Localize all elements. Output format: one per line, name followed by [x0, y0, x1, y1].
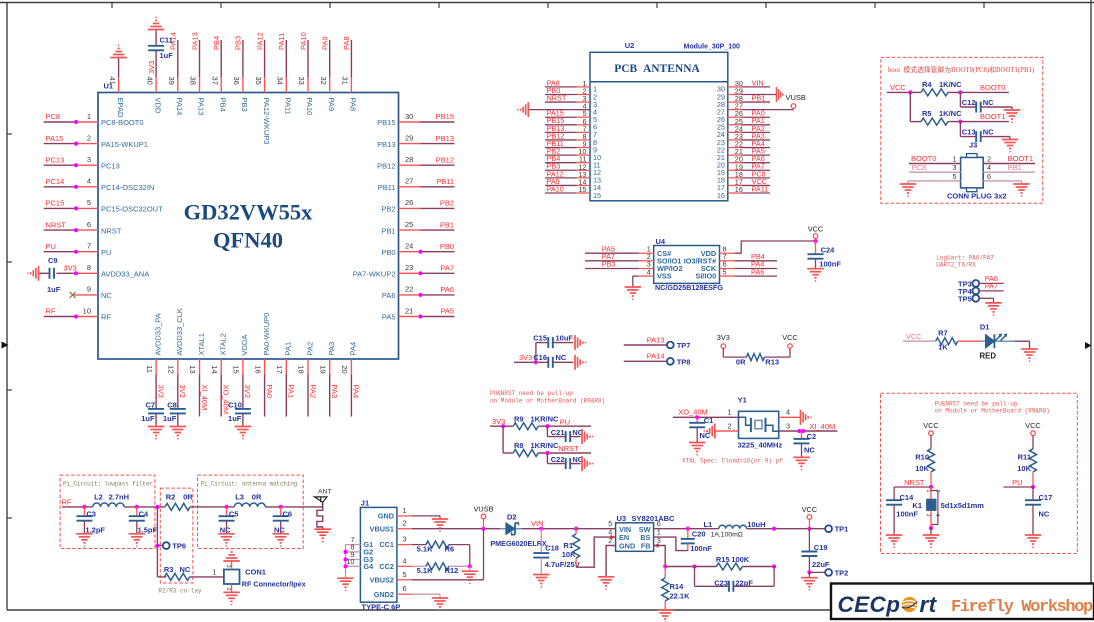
- sheet frame right border: [1085, 0, 1092, 583]
- svg-text:3: 3: [953, 163, 957, 172]
- ground below U4 VSS: [625, 287, 642, 300]
- wire net 3V3 from U1 pin 12: [178, 375, 187, 409]
- wire net PA2 from U1 pin 18: [308, 375, 317, 417]
- svg-text:XI_40M: XI_40M: [200, 385, 209, 411]
- wire net PA11 from U2 pin 16: [742, 184, 771, 193]
- ground below J3 pin 6: [1013, 184, 1030, 197]
- wire net PA6 from U1 pin 22: [418, 285, 454, 297]
- ground above CON1 pin 3: [223, 548, 240, 561]
- U2 pin 18: [717, 170, 743, 185]
- svg-text:L2: L2: [94, 493, 103, 502]
- svg-text:TP1: TP1: [835, 525, 849, 534]
- svg-text:PA7: PA7: [985, 282, 998, 291]
- svg-text:4: 4: [786, 408, 790, 417]
- capacitor C5 NC: [219, 507, 239, 535]
- svg-text:C18: C18: [545, 544, 559, 553]
- wire net RF to U1 pin 10: [44, 307, 78, 319]
- U2 pin 8: [577, 132, 598, 147]
- antenna matching meander to ground: [317, 507, 323, 529]
- wire R1 to EN pin: [576, 537, 616, 567]
- U1 pin 36 PB3: [232, 77, 249, 112]
- svg-text:4: 4: [987, 163, 991, 172]
- svg-text:PB12: PB12: [377, 161, 395, 170]
- svg-text:NC: NC: [101, 291, 112, 300]
- U2 pin 14: [577, 177, 602, 192]
- U1 pin 33 PA10: [297, 77, 314, 116]
- svg-text:1: 1: [925, 490, 931, 493]
- wire U4 VSS to ground: [633, 275, 639, 277]
- U1 pin 5 PC15-OSC32OUT: [76, 198, 163, 213]
- svg-text:PA1: PA1: [287, 385, 296, 399]
- svg-text:RF: RF: [101, 313, 111, 322]
- U2 pin 1: [577, 79, 598, 94]
- svg-text:ANT: ANT: [318, 488, 332, 495]
- U1 pin 34 PA11: [276, 77, 293, 115]
- svg-text:NRST: NRST: [558, 444, 579, 453]
- svg-text:J3: J3: [969, 141, 977, 150]
- test point TP5 to ground: [958, 294, 993, 303]
- capacitor C12 NC: [960, 92, 994, 112]
- wire L3 to C6 and antenna: [265, 505, 323, 509]
- wire net PA14 to U1 pin 39: [169, 32, 178, 77]
- wire net PB4 to U2 pin 11: [545, 154, 577, 163]
- ground right of C15: [575, 335, 586, 350]
- svg-text:PA10: PA10: [305, 98, 314, 116]
- U2 pin 20: [717, 155, 743, 170]
- wire VBUS net: [412, 527, 500, 531]
- wire net PA12 to U2 pin 13: [545, 169, 577, 178]
- svg-text:15: 15: [232, 365, 241, 373]
- capacitor C24 100nF: [808, 241, 842, 269]
- U1 pin 25 PB1: [381, 220, 420, 235]
- svg-text:1uF: 1uF: [141, 414, 155, 423]
- wire net PA4 from U2 pin 22: [742, 139, 771, 148]
- svg-text:40: 40: [145, 77, 154, 85]
- test point TP2: [809, 568, 848, 577]
- svg-text:C12: C12: [962, 98, 976, 107]
- wire VBUS2 to VBUS1: [412, 579, 484, 581]
- svg-text:PA1: PA1: [284, 342, 293, 356]
- svg-text:1uF: 1uF: [160, 51, 174, 60]
- svg-text:PB1: PB1: [1008, 163, 1022, 172]
- svg-text:10K: 10K: [562, 550, 576, 559]
- wire net PB13 from U1 pin 29: [421, 134, 455, 144]
- svg-text:PA11: PA11: [277, 33, 286, 50]
- svg-text:4: 4: [647, 267, 651, 276]
- svg-text:PA3: PA3: [330, 385, 339, 399]
- ground below C4: [129, 534, 146, 547]
- net label VCC boot: [887, 83, 921, 95]
- U1 pin 15 VDDA: [232, 335, 250, 375]
- svg-text:4: 4: [934, 514, 940, 517]
- svg-text:32: 32: [319, 77, 328, 85]
- U1 pin 22 PA6: [382, 285, 421, 300]
- svg-text:NRST: NRST: [547, 93, 567, 102]
- svg-text:9: 9: [87, 285, 91, 294]
- svg-text:16: 16: [717, 191, 725, 200]
- wire net PC13 to U1 pin 3: [44, 155, 78, 167]
- ground below K1: [923, 535, 940, 548]
- svg-text:10K: 10K: [1017, 464, 1031, 473]
- svg-text:30: 30: [405, 112, 413, 121]
- U1 pin 13 XTAL1: [188, 333, 206, 374]
- ground below C18: [533, 575, 550, 588]
- svg-text:PA9: PA9: [327, 98, 336, 112]
- sheet frame left border: [2, 3, 13, 611]
- capacitor C19 22uF: [801, 529, 830, 575]
- svg-text:3V3: 3V3: [519, 353, 532, 362]
- U2 pin 2: [577, 86, 598, 101]
- wire net PA8 to U1 pin 31: [342, 36, 351, 77]
- svg-text:C23: C23: [714, 578, 728, 587]
- svg-text:3V3: 3V3: [64, 264, 77, 273]
- svg-text:CON1: CON1: [245, 568, 266, 577]
- svg-text:29: 29: [405, 133, 413, 142]
- wire R2 to L3: [190, 505, 234, 509]
- U2 pin 23: [717, 132, 743, 147]
- svg-text:U4: U4: [656, 237, 666, 246]
- svg-text:5: 5: [87, 198, 91, 207]
- wire net NRST node: [894, 472, 933, 489]
- svg-text:Firefly Workshop: Firefly Workshop: [951, 598, 1093, 617]
- wire net PU node: [1004, 472, 1036, 489]
- svg-text:34: 34: [276, 77, 285, 85]
- svg-text:PCB ANTENNA: PCB ANTENNA: [614, 63, 700, 75]
- svg-text:0R: 0R: [252, 493, 262, 502]
- net label 3V3 at R9: [490, 417, 513, 428]
- capacitor C4 1.5pF: [129, 507, 158, 535]
- sheet frame bottom border: [7, 609, 831, 611]
- U1 pin 39 PA14: [167, 77, 184, 116]
- svg-text:10uF: 10uF: [556, 334, 574, 343]
- svg-text:PB1: PB1: [440, 220, 454, 229]
- svg-text:PA8: PA8: [349, 98, 358, 112]
- svg-text:10K: 10K: [915, 464, 929, 473]
- svg-text:18: 18: [297, 365, 306, 373]
- svg-text:C3: C3: [86, 510, 96, 519]
- svg-text:PA13: PA13: [190, 32, 199, 50]
- ground right of C16: [575, 355, 586, 370]
- wire net PA12 to U1 pin 35: [255, 32, 264, 77]
- ground below C17: [1025, 535, 1042, 548]
- svg-text:5: 5: [953, 172, 957, 181]
- U2 pin 16: [717, 185, 743, 200]
- svg-text:22.1K: 22.1K: [670, 592, 691, 601]
- svg-text:VDD: VDD: [153, 98, 162, 114]
- svg-text:D1: D1: [980, 322, 990, 331]
- svg-text:C19: C19: [814, 543, 828, 552]
- wire BOOT0 net: [948, 83, 1009, 95]
- svg-text:PB0: PB0: [440, 242, 454, 251]
- svg-text:R11: R11: [1018, 453, 1031, 462]
- logo box CECport Firefly Workshop: [831, 584, 1094, 620]
- wire net PB13 to U2 pin 7: [545, 124, 577, 133]
- wire U4 VDD to VCC: [735, 239, 818, 253]
- U1 pin 7 PU: [76, 242, 111, 257]
- U1 pin 40 VDD: [145, 77, 162, 114]
- svg-text:AVDD33_CLK: AVDD33_CLK: [175, 308, 184, 355]
- svg-text:PA0: PA0: [265, 385, 274, 399]
- svg-text:PB13: PB13: [436, 134, 454, 143]
- ground below C7: [148, 427, 165, 440]
- svg-text:QFN40: QFN40: [213, 228, 283, 253]
- wire FB node: [654, 546, 697, 569]
- svg-text:VUSB: VUSB: [786, 93, 806, 102]
- svg-text:rt: rt: [920, 592, 938, 617]
- J1 pin 8 G2: [346, 543, 374, 557]
- svg-text:PA13: PA13: [197, 98, 206, 116]
- wire net XO_40M from U1 pin 14: [221, 375, 230, 417]
- svg-text:PA11: PA11: [284, 98, 293, 115]
- U2 pin 13: [577, 170, 602, 185]
- svg-text:U3: U3: [617, 514, 627, 523]
- capacitor C1 NC: [689, 416, 713, 443]
- wire net PA13 to U1 pin 38: [190, 32, 199, 77]
- wire C12 to ground: [981, 106, 1012, 108]
- svg-text:XI_40M: XI_40M: [809, 422, 835, 431]
- svg-text:UART2_TX/RX: UART2_TX/RX: [936, 261, 976, 268]
- net label 3V3 at C15/C16: [514, 343, 548, 365]
- ground above C11: [148, 17, 165, 30]
- svg-text:22: 22: [405, 285, 413, 294]
- capacitor C2 NC: [794, 431, 817, 457]
- wire net PA10 to U2 pin 15: [545, 184, 577, 193]
- wire SW node: [654, 527, 719, 531]
- svg-text:20: 20: [340, 365, 349, 373]
- svg-text:PB12: PB12: [436, 155, 454, 164]
- svg-text:TP7: TP7: [677, 341, 691, 350]
- svg-text:R8: R8: [514, 441, 524, 450]
- svg-text:XO_40M: XO_40M: [222, 385, 231, 415]
- U2 pin 21: [717, 147, 743, 162]
- CON1 pin 3 to ground above: [225, 562, 232, 570]
- svg-text:6: 6: [403, 584, 407, 593]
- sheet frame top border: [0, 3, 1094, 9]
- svg-text:PA6: PA6: [382, 291, 396, 300]
- wire net PA0 from U2 pin 26: [742, 109, 771, 118]
- svg-text:C15: C15: [533, 334, 547, 343]
- U2 pin 3: [577, 94, 598, 109]
- wire net PA9 to U1 pin 32: [321, 36, 330, 77]
- ground below antenna meander: [314, 529, 331, 542]
- svg-text:0R: 0R: [736, 357, 746, 366]
- capacitor C17 NC: [1025, 487, 1052, 535]
- svg-text:NRST: NRST: [46, 220, 67, 229]
- svg-text:C2: C2: [807, 432, 817, 441]
- svg-text:4.7uF/25V: 4.7uF/25V: [545, 560, 580, 569]
- ground below C8: [170, 427, 187, 440]
- U2 pin 5: [577, 109, 598, 124]
- capacitor C15 10uF: [533, 334, 573, 348]
- svg-text:PU: PU: [46, 242, 56, 251]
- ground below C19: [801, 578, 818, 591]
- wire net PA15 to U2 pin 5: [545, 109, 577, 118]
- ground right of C22: [582, 456, 593, 471]
- ground below C6: [272, 534, 289, 547]
- svg-text:6: 6: [987, 172, 991, 181]
- wire net PB3 to U2 pin 12: [545, 162, 577, 171]
- U1 pin 26 PB2: [381, 198, 420, 213]
- ground below C10: [235, 427, 252, 440]
- wire net PB4 to U1 pin 37: [212, 36, 221, 77]
- svg-text:37: 37: [210, 77, 219, 85]
- wire net PA6 from U2 pin 20: [742, 154, 771, 163]
- svg-text:3V3: 3V3: [147, 61, 156, 74]
- svg-text:VCC: VCC: [923, 421, 938, 430]
- svg-text:AVDD33_PA: AVDD33_PA: [153, 313, 162, 355]
- svg-text:SI/IO0: SI/IO0: [696, 272, 717, 281]
- svg-text:VBUS1: VBUS1: [370, 524, 394, 533]
- svg-text:39: 39: [167, 77, 176, 85]
- wire J1 GND pin 1 to ground: [412, 515, 440, 517]
- ground below J1 pin 1: [432, 519, 449, 532]
- svg-text:CC2: CC2: [379, 562, 394, 571]
- svg-text:VIN: VIN: [752, 78, 764, 87]
- wire BS to C20: [654, 537, 688, 551]
- svg-text:C21: C21: [551, 428, 565, 437]
- dashed box Pi_Circuit antenna matching: [198, 475, 304, 548]
- ground below CON1 pin 2: [223, 592, 240, 605]
- resistor R6 5.1K: [412, 541, 454, 553]
- U1 pin 2 PA15-WKUP1: [76, 133, 148, 148]
- wire C19 to ground: [808, 572, 810, 577]
- svg-text:1uF: 1uF: [163, 414, 177, 423]
- svg-text:Module_30P_100: Module_30P_100: [684, 43, 741, 50]
- svg-text:3: 3: [786, 421, 790, 430]
- wire net PB4 from U4 pin 7: [735, 252, 778, 261]
- svg-text:2.7nH: 2.7nH: [109, 493, 129, 502]
- J3 pin 6 wire to ground: [983, 172, 1021, 184]
- U1 pin 29 PB13: [377, 133, 420, 148]
- U1 pin 38 PA13: [189, 77, 206, 116]
- ground right of C21: [582, 429, 593, 444]
- J1 pin 7 G1: [346, 535, 374, 549]
- svg-text:27: 27: [405, 177, 413, 186]
- U1 pin 17 PA1: [275, 342, 293, 375]
- inductor L3 0R: [234, 493, 265, 507]
- wire U2 pin 29 to VUSB power bar: [742, 93, 777, 95]
- svg-text:TP5: TP5: [958, 294, 972, 303]
- svg-text:1: 1: [212, 567, 216, 576]
- U1 pin 14 XTAL2: [210, 333, 228, 374]
- inductor L2 2.7nH: [93, 493, 129, 507]
- dashed box Pi_Circuit lowpass filter: [60, 475, 155, 548]
- svg-text:0R: 0R: [183, 493, 193, 502]
- wire net PA6 from U4 pin 5: [735, 267, 778, 276]
- capacitor C20 100nF: [681, 529, 712, 553]
- svg-text:PA15: PA15: [46, 134, 64, 143]
- svg-text:on Module or MotherBoard (R9&R: on Module or MotherBoard (R9&R8): [935, 408, 1050, 415]
- svg-text:C22: C22: [551, 455, 565, 464]
- svg-text:3: 3: [87, 155, 91, 164]
- svg-text:C20: C20: [692, 530, 706, 539]
- svg-text:C7: C7: [146, 401, 156, 410]
- svg-text:PU: PU: [1012, 478, 1022, 487]
- power symbol VUSB: [777, 87, 806, 102]
- U1 pin 6 NRST: [76, 220, 122, 235]
- wire net PA4 from U4 pin 6: [735, 260, 778, 269]
- svg-text:10uH: 10uH: [747, 520, 765, 529]
- svg-text:GD32VW55x: GD32VW55x: [184, 200, 313, 225]
- svg-text:PA15-WKUP1: PA15-WKUP1: [101, 140, 148, 149]
- U1 pin 32 PA9: [319, 77, 336, 112]
- svg-text:J1: J1: [361, 499, 369, 508]
- svg-text:31: 31: [341, 77, 350, 85]
- wire net VIN from U2 pin 30: [742, 78, 771, 87]
- svg-text:C8: C8: [167, 401, 177, 410]
- U1 pin 3 PC13: [76, 155, 120, 170]
- svg-text:PA12-WKUP3: PA12-WKUP3: [262, 98, 271, 145]
- wire net PA5 to U4 pin 1: [585, 244, 639, 253]
- U1 pin 21 PA5: [382, 306, 421, 321]
- wire Y1 pin 4 to ground bar: [779, 408, 801, 418]
- U4 pin 4 VSS: [639, 267, 672, 280]
- svg-text:PA14: PA14: [647, 352, 665, 361]
- ground below R14: [657, 610, 674, 622]
- U1 pin 16 PA0-WKUP0: [253, 313, 271, 375]
- svg-text:1KR/NC: 1KR/NC: [531, 414, 560, 423]
- U2 pin 10: [577, 147, 602, 162]
- svg-text:100nF: 100nF: [896, 510, 918, 519]
- J1 pin 5 VBUS2: [370, 570, 412, 585]
- svg-text:PA5: PA5: [440, 307, 454, 316]
- svg-text:R5: R5: [922, 109, 932, 118]
- svg-text:2: 2: [87, 133, 91, 142]
- ground above EPAD: [110, 45, 127, 58]
- svg-text:4: 4: [87, 177, 91, 186]
- svg-text:VSS: VSS: [657, 272, 672, 281]
- svg-text:R10: R10: [915, 453, 929, 462]
- svg-text:PA6: PA6: [440, 285, 454, 294]
- wire U2 pin 4 to ground: [528, 109, 590, 111]
- svg-text:NC/GD25B128ESFG: NC/GD25B128ESFG: [655, 283, 723, 292]
- svg-text:PC8: PC8: [46, 112, 61, 121]
- test point TP1: [809, 525, 848, 534]
- ground below CC node: [462, 571, 479, 584]
- svg-text:C1: C1: [704, 416, 714, 425]
- ground below C13: [1002, 140, 1019, 153]
- U1 pin 37 PB4: [210, 77, 227, 112]
- svg-text:PA3: PA3: [327, 342, 336, 356]
- U2 pin 9: [577, 140, 598, 155]
- svg-text:5: 5: [403, 570, 407, 579]
- net label RF wire: [62, 497, 93, 509]
- wire net NRST from R8: [538, 444, 591, 455]
- wire net 3V3 from U1 pin 15: [243, 375, 252, 409]
- power port VCC above R10: [923, 421, 938, 449]
- wire net PB11 to U2 pin 9: [545, 139, 577, 148]
- wire net XO_40M to Y1 pin 1: [673, 408, 739, 420]
- wire net PA15 to U1 pin 2: [44, 134, 78, 146]
- svg-text:PB13: PB13: [377, 140, 395, 149]
- svg-text:XTAL Spec: Cload=10(or 9) pf: XTAL Spec: Cload=10(or 9) pf: [682, 457, 783, 464]
- svg-text:41: 41: [108, 77, 117, 85]
- svg-text:NRST: NRST: [904, 478, 925, 487]
- svg-text:G4: G4: [363, 562, 374, 571]
- svg-text:5: 5: [723, 267, 727, 276]
- svg-text:PA0-WKUP0: PA0-WKUP0: [262, 313, 271, 356]
- ground below C12: [1004, 110, 1021, 123]
- U4 pin 6 SCK: [701, 260, 735, 273]
- wire net PA10 to U1 pin 33: [299, 32, 308, 77]
- svg-text:PA8: PA8: [342, 36, 351, 50]
- svg-text:PA4: PA4: [349, 342, 358, 356]
- U1 pin 27 PB11: [378, 177, 421, 192]
- wire C11 to ground: [155, 30, 157, 46]
- test point TP3 net PA6: [958, 274, 1004, 288]
- svg-text:PC15: PC15: [46, 199, 65, 208]
- U2 pin 22: [717, 140, 743, 155]
